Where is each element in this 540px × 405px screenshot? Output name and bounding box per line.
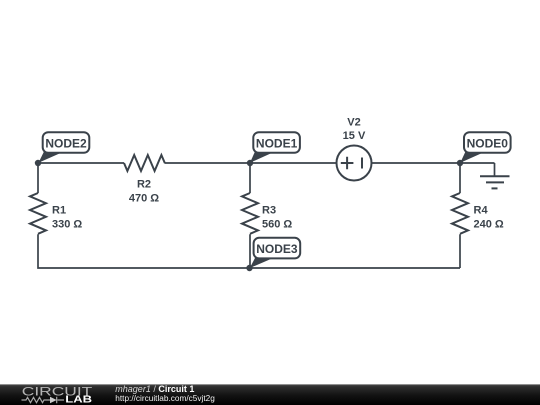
svg-text:R1: R1 [52, 205, 66, 217]
svg-text:240 Ω: 240 Ω [474, 219, 504, 231]
svg-text:NODE2: NODE2 [45, 137, 87, 151]
svg-text:V2: V2 [347, 116, 360, 128]
svg-text:330 Ω: 330 Ω [52, 219, 82, 231]
svg-text:NODE1: NODE1 [256, 137, 298, 151]
svg-text:R2: R2 [137, 179, 151, 191]
svg-text:470 Ω: 470 Ω [129, 193, 159, 205]
svg-text:R4: R4 [474, 205, 489, 217]
svg-text:http://circuitlab.com/c5vjt2g: http://circuitlab.com/c5vjt2g [115, 393, 215, 403]
svg-text:560 Ω: 560 Ω [262, 219, 292, 231]
svg-text:LAB: LAB [65, 395, 92, 405]
svg-text:NODE3: NODE3 [256, 242, 298, 256]
svg-text:NODE0: NODE0 [467, 137, 509, 151]
svg-text:R3: R3 [262, 205, 276, 217]
svg-text:15 V: 15 V [343, 130, 366, 142]
